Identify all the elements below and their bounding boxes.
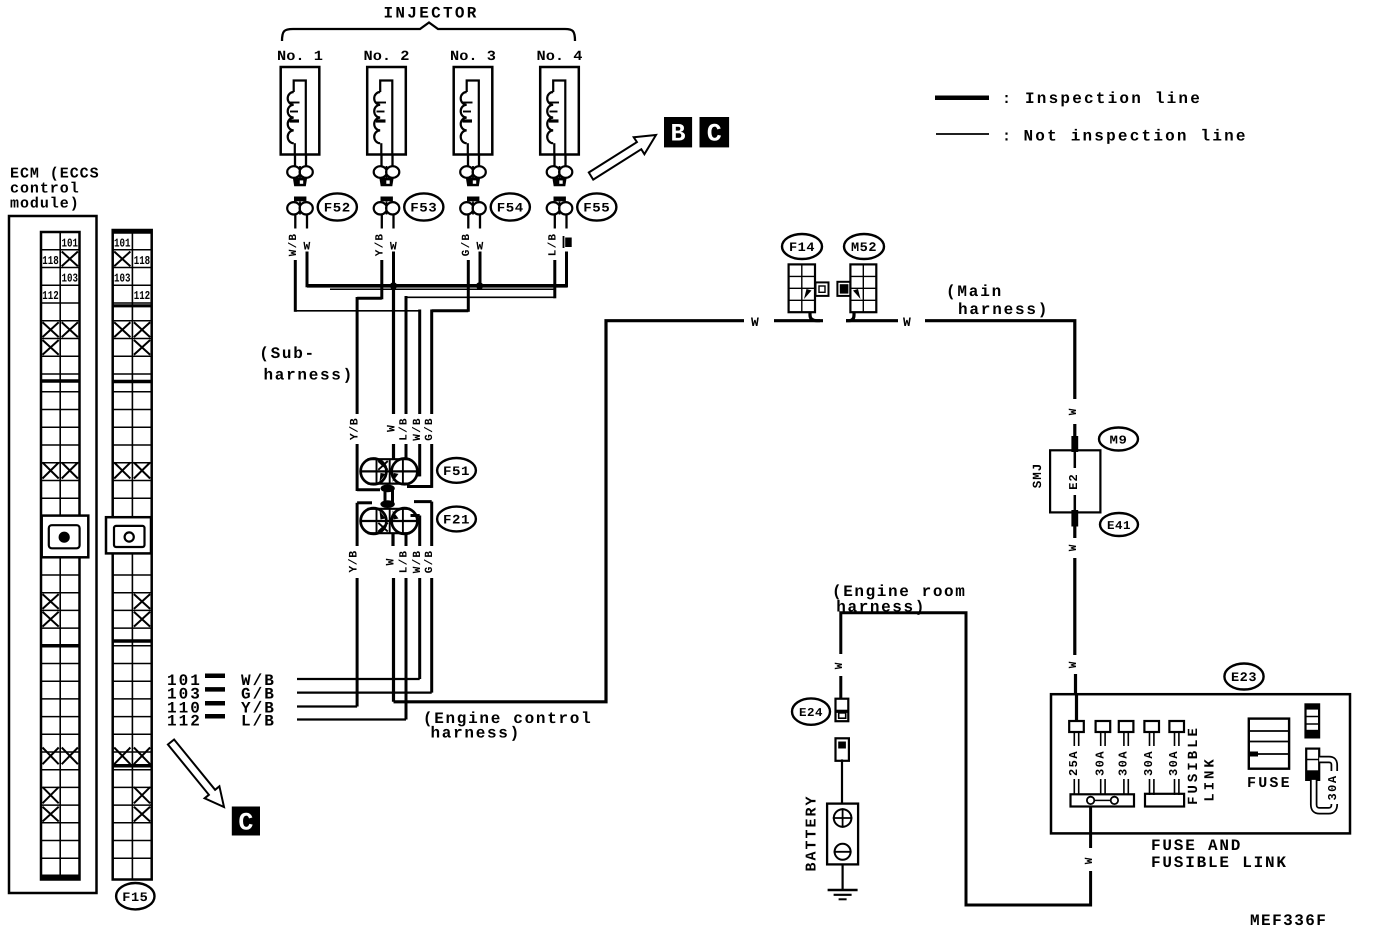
- svg-text:103: 103: [114, 272, 131, 286]
- svg-text:INJECTOR: INJECTOR: [384, 5, 479, 23]
- svg-text:harness): harness): [958, 301, 1049, 319]
- svg-text:G/B: G/B: [424, 417, 436, 440]
- svg-text:LINK: LINK: [1203, 756, 1219, 802]
- svg-text:103: 103: [62, 272, 79, 286]
- svg-text:Y/B: Y/B: [349, 418, 362, 440]
- svg-text:E2: E2: [1067, 473, 1081, 489]
- svg-text:C: C: [238, 809, 253, 838]
- svg-text:F52: F52: [324, 201, 351, 216]
- svg-text:W: W: [386, 424, 399, 432]
- svg-text:MEF336F: MEF336F: [1250, 912, 1327, 930]
- svg-text:Not inspection line: Not inspection line: [1024, 128, 1248, 146]
- svg-text:No. 4: No. 4: [537, 49, 583, 65]
- svg-text:L/B: L/B: [399, 417, 411, 440]
- svg-text:M52: M52: [851, 240, 877, 255]
- svg-text:FUSIBLE LINK: FUSIBLE LINK: [1151, 854, 1288, 872]
- svg-text:No. 3: No. 3: [450, 49, 496, 65]
- svg-text:M9: M9: [1110, 433, 1128, 447]
- svg-text:30A: 30A: [1093, 750, 1107, 776]
- svg-text:W: W: [1068, 408, 1080, 416]
- svg-text:SMJ: SMJ: [1031, 463, 1045, 489]
- svg-text:101: 101: [62, 237, 79, 251]
- svg-text:112: 112: [167, 713, 202, 731]
- svg-text:W: W: [385, 558, 398, 566]
- svg-text:30A: 30A: [1117, 750, 1131, 776]
- svg-text:W: W: [834, 662, 846, 670]
- svg-text:W: W: [1068, 661, 1080, 669]
- svg-text:Inspection line: Inspection line: [1025, 90, 1202, 108]
- svg-text:B: B: [670, 120, 685, 149]
- svg-text:G/B: G/B: [424, 550, 436, 573]
- svg-text:Y/B: Y/B: [348, 550, 361, 572]
- svg-text:118: 118: [134, 254, 151, 268]
- svg-text:F15: F15: [122, 890, 148, 905]
- svg-text:module): module): [10, 196, 80, 213]
- svg-text:G/B: G/B: [461, 233, 473, 256]
- svg-text:Y/B: Y/B: [374, 233, 386, 256]
- svg-text:F55: F55: [583, 201, 610, 216]
- svg-text:FUSE AND: FUSE AND: [1151, 837, 1242, 855]
- svg-text:E23: E23: [1231, 670, 1257, 685]
- svg-text:30A: 30A: [1167, 750, 1181, 776]
- svg-text:25A: 25A: [1067, 750, 1081, 776]
- svg-text:harness): harness): [431, 725, 521, 743]
- svg-text:L/B: L/B: [547, 233, 559, 256]
- svg-text:W/B: W/B: [412, 550, 424, 573]
- svg-text:112: 112: [134, 289, 151, 303]
- svg-text:W/B: W/B: [288, 233, 300, 256]
- svg-text:F21: F21: [443, 513, 470, 528]
- svg-text:F51: F51: [443, 464, 470, 479]
- svg-text:W: W: [903, 315, 911, 330]
- svg-text::: :: [1002, 129, 1011, 146]
- svg-text:101: 101: [114, 237, 131, 251]
- svg-text:F54: F54: [497, 201, 524, 216]
- svg-text:BATTERY: BATTERY: [804, 794, 821, 871]
- svg-text:FUSE: FUSE: [1247, 775, 1292, 792]
- svg-text:(Sub-: (Sub-: [259, 345, 316, 363]
- svg-text:F14: F14: [789, 240, 815, 255]
- svg-text:FUSIBLE: FUSIBLE: [1186, 725, 1202, 805]
- svg-text:W: W: [1084, 857, 1096, 865]
- svg-text:30A: 30A: [1142, 750, 1156, 776]
- svg-text:112: 112: [42, 289, 59, 303]
- svg-text:E24: E24: [799, 706, 823, 720]
- svg-text:C: C: [707, 120, 722, 149]
- svg-text:E41: E41: [1107, 519, 1131, 533]
- svg-text:No. 2: No. 2: [364, 49, 410, 65]
- svg-text:30A: 30A: [1326, 774, 1340, 800]
- svg-text:L/B: L/B: [241, 713, 276, 731]
- svg-text:No. 1: No. 1: [277, 49, 323, 65]
- svg-text:L/B: L/B: [399, 550, 411, 573]
- svg-text:W/B: W/B: [412, 417, 424, 440]
- svg-text::: :: [1002, 91, 1011, 108]
- svg-text:W: W: [751, 315, 759, 330]
- svg-text:F53: F53: [410, 201, 437, 216]
- svg-text:W: W: [1068, 544, 1080, 552]
- svg-text:harness): harness): [264, 367, 354, 385]
- svg-text:118: 118: [42, 254, 59, 268]
- svg-text:(Main: (Main: [946, 283, 1003, 301]
